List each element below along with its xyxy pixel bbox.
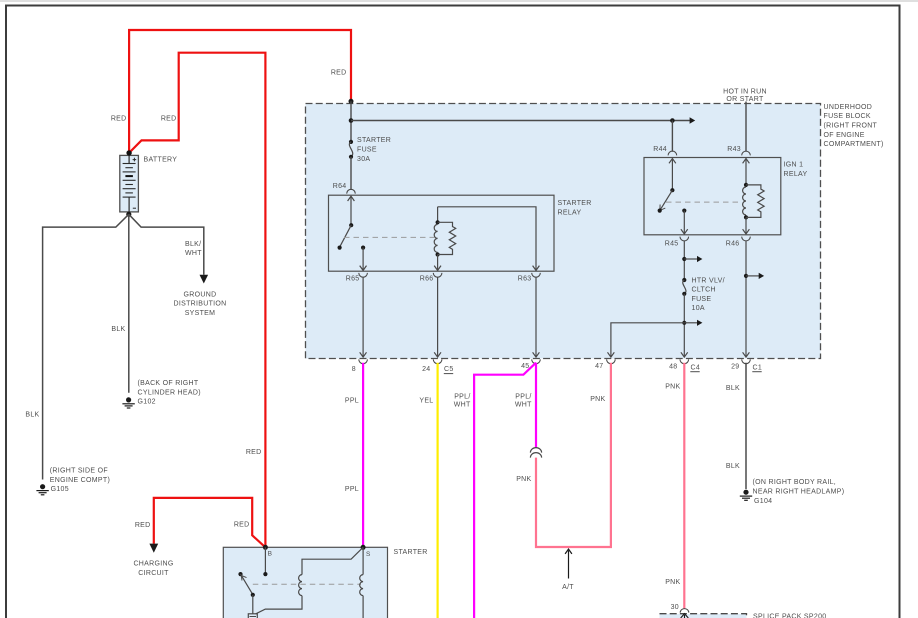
pin 24 C5 connector [433,359,442,363]
node battery negative [126,212,131,217]
node battery positive [126,150,131,155]
svg-text:(RIGHT SIDE OF: (RIGHT SIDE OF [50,468,108,475]
pin R63 connector [532,273,541,277]
svg-text:30: 30 [671,604,679,611]
label STARTER RELAY [558,200,592,216]
wire coil bottom to R66 with arrow [434,255,441,271]
label IGN 1 RELAY [784,162,808,178]
label CHARGING CIRCUIT [133,561,173,577]
label G105 location [50,468,110,494]
wire R65 to pin 8 with arrow [360,277,367,357]
svg-text:WHT: WHT [454,402,471,409]
node starter S terminal [361,545,366,550]
arrow to charging circuit [149,544,158,553]
wire PPL pin 8 to starter S [362,363,364,548]
fuse HTR VLV/CLTCH FUSE 10A [682,278,686,296]
wire coil bottom to R46 with arrow [743,217,750,234]
svg-text:WHT: WHT [515,402,532,409]
wire junction to pin 47 with arrow [608,323,685,357]
wire contact to R45 with arrow [681,211,688,234]
pin R64 connector [347,189,356,193]
resistor ign1 relay (parallel) [746,185,764,218]
arrow into relay from R64 [348,196,355,225]
svg-text:PPL: PPL [345,486,359,493]
label PPL/WHT right [515,393,532,408]
node R45 contact [682,209,686,213]
label PPL/WHT left [454,393,471,408]
relay box STARTER RELAY [329,195,555,271]
wire PPL/WHT pin 45 left branch [474,363,536,618]
switch starter solenoid contact [238,572,255,597]
arrow A/T tap [565,549,572,578]
pin 48 C4 connector [680,359,689,363]
node bus junction [349,118,354,123]
svg-text:COMPARTMENT): COMPARTMENT) [824,141,884,148]
svg-text:BLK: BLK [111,326,125,333]
label G102 location [138,380,201,406]
svg-text:STARTER: STARTER [357,137,391,144]
svg-text:R64: R64 [333,183,347,190]
label C4 [690,364,700,371]
svg-text:PNK: PNK [665,579,680,586]
svg-text:CIRCUIT: CIRCUIT [138,570,169,577]
wire B into starter [264,547,266,574]
svg-text:PNK: PNK [665,384,680,391]
resistor starter relay (parallel) [438,222,456,254]
svg-text:STARTER: STARTER [558,200,592,207]
node R44 tap junction [670,118,675,123]
svg-text:B: B [268,551,273,558]
svg-text:CLTCH: CLTCH [692,287,716,294]
svg-text:R65: R65 [346,276,360,283]
arrow tap right (R46) [746,273,764,279]
svg-text:IGN 1: IGN 1 [784,162,804,169]
svg-text:G102: G102 [138,399,156,406]
wire RED battery to starter fuse (net A) [129,30,351,153]
svg-text:OF ENGINE: OF ENGINE [824,132,865,139]
svg-text:SPLICE PACK SP200: SPLICE PACK SP200 [753,613,826,618]
svg-text:(ON RIGHT BODY RAIL,: (ON RIGHT BODY RAIL, [753,479,837,486]
switch starter relay [338,223,354,250]
coil starter relay [434,207,440,257]
svg-text:HOT IN RUN: HOT IN RUN [723,89,767,96]
pin 29 C1 connector [742,359,751,363]
svg-text:NEAR RIGHT HEADLAMP): NEAR RIGHT HEADLAMP) [753,489,845,496]
wire pull-in coil to S [302,547,363,574]
arrow junction right [684,320,702,326]
wire starter fuse to R64 [350,157,352,190]
node red feed at fuse block edge [349,99,354,104]
svg-text:UNDERHOOD: UNDERHOOD [824,104,873,111]
wire YEL pin 24 down [437,363,439,618]
svg-text:ENGINE COMPT): ENGINE COMPT) [50,477,110,484]
svg-text:C4: C4 [691,364,701,371]
svg-text:PPL/: PPL/ [515,393,531,400]
label STARTER FUSE 30A [357,137,391,163]
ground G104 [740,490,752,501]
svg-text:SYSTEM: SYSTEM [185,310,216,317]
wire PPL/WHT pin 45 down branch [535,363,537,448]
label HTR VLV/CLTCH FUSE 10A [692,277,725,312]
linkage dashed ign1 relay [666,201,742,203]
wire bus to ign1 relay feed [351,120,690,122]
coil ign1 relay [743,183,749,220]
arrow bus feed right [690,117,696,123]
label C5 [444,366,454,373]
svg-text:CHARGING: CHARGING [133,561,173,568]
wire BLK battery to G105 [43,214,129,479]
pin 30 connector [680,609,689,613]
svg-text:YEL: YEL [419,398,433,405]
wire PNK pin 48 to splice pack [683,363,685,609]
splice pack SP200 box [660,614,747,618]
wire R66 to pin 24 with arrow [434,277,441,357]
pin R43 connector [742,151,751,155]
ground G105 [36,484,48,495]
wire BLK battery to G102 [128,214,130,392]
wire BLK/WHT battery to ground distribution [129,214,204,274]
svg-text:47: 47 [595,363,603,370]
svg-text:RED: RED [161,116,177,123]
wire R45 to HTR fuse [683,241,685,280]
svg-text:RED: RED [135,522,151,529]
wire R63 to pin 45 with arrow [533,277,540,357]
wire hot in run feed to R43 [745,102,747,152]
node B contact [263,572,267,576]
svg-text:WHT: WHT [185,250,202,257]
svg-text:BLK: BLK [726,385,740,392]
svg-text:C5: C5 [444,366,454,373]
svg-text:RELAY: RELAY [558,209,582,216]
svg-text:FUSE: FUSE [692,296,712,303]
pin R46 connector [742,237,751,241]
coil starter pull-in winding [299,575,302,596]
wire BLK pin 29 to G104 [745,363,747,489]
svg-text:G105: G105 [51,486,69,493]
label BLK/WHT [185,241,202,257]
svg-text:HTR VLV/: HTR VLV/ [692,277,725,284]
wire contact to pull-in coil [256,596,302,614]
svg-text:(BACK OF RIGHT: (BACK OF RIGHT [138,380,199,387]
arrow splice pack up [681,614,689,618]
svg-text:RED: RED [331,70,347,77]
arrow tap right (R45) [684,256,702,262]
battery BATTERY [120,155,139,212]
svg-text:GROUND: GROUND [184,291,217,298]
pin R45 connector [680,237,689,241]
svg-text:G104: G104 [754,498,772,505]
wire R44 tap down [671,121,673,152]
wire R46 to pin 29 with arrow [743,241,750,357]
svg-text:30A: 30A [357,156,370,163]
svg-text:CYLINDER HEAD): CYLINDER HEAD) [138,389,201,396]
wire HTR fuse down to pin 48 with arrow [681,294,688,357]
svg-text:BLK: BLK [25,411,39,418]
svg-text:R63: R63 [518,276,532,283]
svg-text:FUSE: FUSE [357,146,377,153]
ground G102 [122,397,134,408]
svg-text:PNK: PNK [516,476,531,483]
underhood fuse block (dashed box) [306,104,821,359]
node R45 tap [682,257,686,261]
wire RED charging circuit branch [154,498,266,547]
svg-text:RED: RED [246,449,262,456]
label C1 [752,364,762,371]
svg-text:RELAY: RELAY [784,171,808,178]
pin R44 connector [668,151,677,155]
svg-text:24: 24 [422,366,430,373]
svg-text:R66: R66 [420,276,434,283]
pin 45 connector [532,359,541,363]
underhood fuse block label [824,104,884,148]
label HOT IN RUN OR START [723,89,767,104]
top faint page edge [0,0,918,2]
node R46 tap [744,274,748,278]
node starter B terminal [263,545,268,550]
arrow into relay from R44 [669,159,676,191]
label G104 location [753,479,845,505]
svg-text:R46: R46 [726,241,740,248]
pin R65 connector [359,273,368,277]
svg-text:R45: R45 [665,241,679,248]
svg-text:A/T: A/T [562,584,574,591]
svg-text:PPL: PPL [345,398,359,405]
node HTR fuse output junction [682,321,686,325]
svg-text:8: 8 [352,366,356,373]
wire feed into starter fuse [350,101,352,141]
switch ign1 relay [658,188,675,213]
svg-text:BLK: BLK [726,463,740,470]
svg-text:BATTERY: BATTERY [144,157,178,164]
svg-text:DISTRIBUTION: DISTRIBUTION [174,301,227,308]
linkage dashed starter [253,583,361,585]
pin 8 connector [359,359,368,363]
svg-text:10A: 10A [692,305,705,312]
wire PNK splice to A/T loop to pin 47 [536,363,611,547]
wire hold-in coil down [362,596,364,618]
wire RED battery to starter B (net B) [129,53,265,547]
svg-text:R44: R44 [653,146,667,153]
linkage dashed starter relay [344,236,434,238]
pin 47 connector [607,359,616,363]
label GROUND DISTRIBUTION SYSTEM [174,291,227,317]
inline splice symbol on wire 45 [530,448,541,458]
node R65 contact [361,246,365,250]
coil starter hold-in winding [360,575,363,596]
svg-text:RED: RED [111,116,127,123]
pin R66 connector [433,273,442,277]
wire switch to motor contact [252,595,254,614]
wire S to hold-in coil [362,547,364,574]
relay box IGN 1 RELAY [644,158,781,235]
svg-text:RED: RED [234,522,250,529]
svg-text:STARTER: STARTER [394,549,428,556]
svg-text:29: 29 [731,363,739,370]
wire contact to R65 with arrow [360,248,367,271]
svg-text:(RIGHT FRONT: (RIGHT FRONT [824,123,878,130]
wire coil top to R63 with arrow [438,207,540,271]
fuse STARTER FUSE 30A [349,140,353,159]
svg-text:48: 48 [669,363,677,370]
svg-text:FUSE BLOCK: FUSE BLOCK [824,113,871,120]
arrow into relay from R43 [743,159,750,185]
svg-text:C1: C1 [753,364,763,371]
motor contact box [248,614,257,618]
svg-text:BLK/: BLK/ [185,241,201,248]
arrow to ground distribution system [200,275,209,284]
svg-text:PPL/: PPL/ [454,393,470,400]
svg-text:R43: R43 [727,146,741,153]
svg-text:S: S [366,551,371,558]
svg-text:PNK: PNK [590,396,605,403]
svg-text:OR START: OR START [726,96,764,103]
starter box STARTER [223,547,387,618]
